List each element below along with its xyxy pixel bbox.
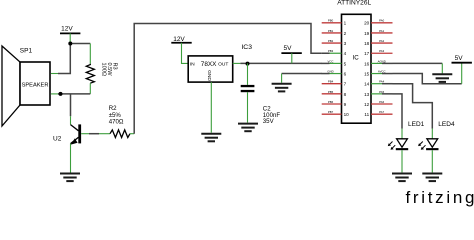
svg-text:PA4: PA4 — [379, 80, 385, 84]
svg-text:PB7: PB7 — [328, 110, 334, 114]
svg-text:PB3: PB3 — [328, 49, 334, 53]
svg-text:12: 12 — [364, 102, 370, 107]
svg-text:SP1: SP1 — [20, 47, 33, 54]
svg-text:16: 16 — [364, 61, 370, 66]
svg-text:PB1: PB1 — [328, 29, 334, 33]
svg-text:6: 6 — [344, 71, 347, 76]
svg-text:IC3: IC3 — [241, 44, 252, 51]
svg-text:5V: 5V — [455, 55, 464, 62]
svg-text:5: 5 — [344, 61, 347, 66]
svg-text:PB0: PB0 — [328, 19, 334, 23]
svg-text:20: 20 — [364, 21, 370, 26]
svg-text:GND: GND — [206, 70, 212, 81]
svg-text:17: 17 — [364, 51, 370, 56]
svg-text:AGND: AGND — [378, 59, 386, 63]
svg-text:19: 19 — [364, 31, 370, 36]
svg-text:9: 9 — [344, 102, 347, 107]
svg-text:GND: GND — [327, 69, 333, 73]
svg-text:PA0: PA0 — [379, 19, 385, 23]
svg-text:PA1: PA1 — [379, 29, 385, 33]
svg-text:100Ω: 100Ω — [101, 63, 107, 77]
svg-text:12V: 12V — [61, 26, 73, 33]
svg-text:PB6: PB6 — [328, 100, 334, 104]
svg-text:5V: 5V — [284, 45, 293, 52]
svg-text:OUT: OUT — [218, 62, 228, 68]
svg-text:78XX: 78XX — [201, 61, 217, 68]
svg-text:470Ω: 470Ω — [109, 118, 124, 125]
svg-text:3: 3 — [344, 41, 347, 46]
svg-text:4: 4 — [344, 51, 347, 56]
svg-text:2: 2 — [344, 31, 347, 36]
svg-text:LED4: LED4 — [438, 121, 455, 128]
svg-text:IN: IN — [190, 62, 195, 68]
svg-text:7: 7 — [344, 82, 347, 87]
svg-text:SPEAKER: SPEAKER — [22, 82, 49, 88]
svg-text:PB5: PB5 — [328, 90, 334, 94]
svg-text:PB2: PB2 — [328, 39, 334, 43]
svg-text:14: 14 — [364, 82, 370, 87]
svg-text:PA2: PA2 — [379, 39, 385, 43]
svg-text:15: 15 — [364, 71, 370, 76]
svg-text:1: 1 — [344, 21, 347, 26]
svg-text:10: 10 — [344, 112, 350, 117]
svg-text:PA6: PA6 — [379, 100, 385, 104]
svg-text:35V: 35V — [263, 118, 275, 125]
svg-text:U2: U2 — [53, 136, 62, 143]
svg-text:AVCC: AVCC — [378, 69, 386, 73]
svg-text:PA5: PA5 — [379, 90, 385, 94]
svg-text:ATTINY26L: ATTINY26L — [337, 0, 371, 6]
svg-text:PA7: PA7 — [379, 110, 385, 114]
svg-text:LED1: LED1 — [408, 121, 425, 128]
svg-text:13: 13 — [364, 92, 370, 97]
svg-text:PB4: PB4 — [328, 80, 334, 84]
svg-text:fritzing: fritzing — [406, 188, 474, 207]
svg-text:8: 8 — [344, 92, 347, 97]
svg-text:IC: IC — [353, 55, 360, 62]
svg-text:VCC: VCC — [328, 59, 334, 63]
svg-text:18: 18 — [364, 41, 370, 46]
svg-text:11: 11 — [364, 112, 369, 117]
svg-text:PA3: PA3 — [379, 49, 385, 53]
